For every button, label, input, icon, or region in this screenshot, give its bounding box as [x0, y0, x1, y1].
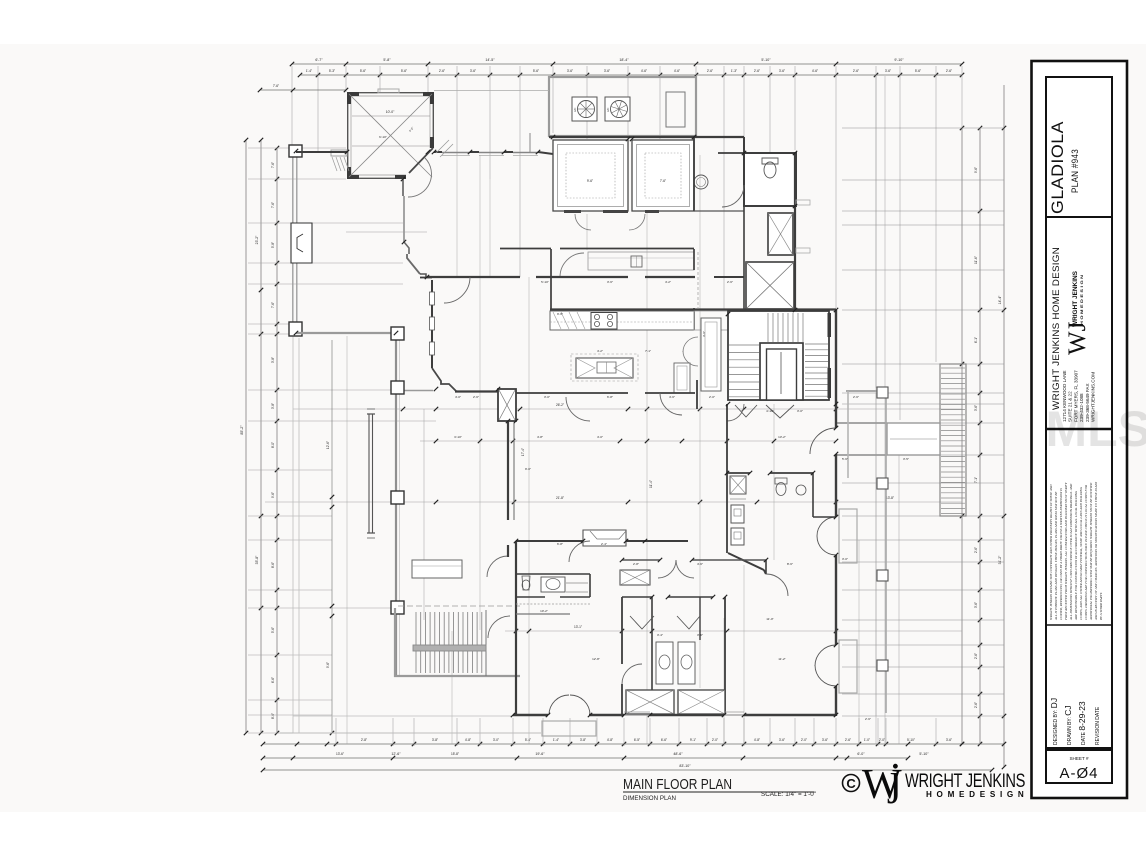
svg-text:3'-6": 3'-6"	[974, 405, 978, 411]
porch roof dashed line	[398, 605, 520, 607]
svg-text:8'-6": 8'-6"	[271, 562, 275, 568]
top dimension line row 1	[292, 63, 962, 65]
bath2 vanity	[541, 577, 565, 592]
svg-text:1'-4": 1'-4"	[553, 738, 559, 742]
svg-text:A-Ø4: A-Ø4	[1059, 765, 1098, 782]
svg-text:3'-4": 3'-4"	[657, 633, 663, 637]
entry angled wall	[409, 148, 433, 173]
island sink	[597, 362, 616, 373]
svg-text:2'-0": 2'-0"	[801, 738, 807, 742]
interior crossing dimension line C	[505, 630, 962, 632]
svg-text:4'-0": 4'-0"	[597, 435, 603, 439]
svg-text:5'-4": 5'-4"	[525, 738, 531, 742]
svg-text:ADDITIONAL ENGINEERING THAT MA: ADDITIONAL ENGINEERING THAT MAY BE REQUI…	[1089, 482, 1093, 621]
svg-text:7'-6": 7'-6"	[271, 202, 275, 208]
svg-text:H O M E D E S I G N: H O M E D E S I G N	[1080, 274, 1084, 325]
right stair treads	[941, 367, 965, 369]
bath2 low wall	[516, 613, 570, 615]
svg-text:6'-10": 6'-10"	[379, 135, 387, 139]
bedroom2 east door arc	[622, 664, 642, 684]
svg-text:4'-6": 4'-6"	[674, 69, 680, 73]
mudroom walls	[726, 404, 728, 553]
long vertical ext at tower edge	[346, 336, 348, 744]
svg-text:3'-0": 3'-0"	[544, 395, 550, 399]
svg-text:AND IN RECEIPT OF ANY CHANGES.: AND IN RECEIPT OF ANY CHANGES. ADDITIONS…	[1094, 481, 1098, 621]
bridge to house	[836, 422, 887, 424]
svg-text:5'-6": 5'-6"	[401, 69, 407, 73]
svg-text:3'-0": 3'-0"	[842, 557, 848, 561]
svg-text:4'-8": 4'-8"	[607, 738, 613, 742]
svg-text:48'-6": 48'-6"	[673, 752, 683, 756]
svg-text:12'-6": 12'-6"	[391, 752, 401, 756]
bath3 vanity west	[656, 642, 673, 684]
svg-text:9'-6": 9'-6"	[587, 179, 593, 183]
bath2 shower hatch	[566, 582, 588, 584]
tall cabinet shaft	[701, 318, 721, 391]
entry tower inner dim lines	[352, 115, 430, 117]
storage closet east	[632, 140, 694, 211]
svg-text:3'-8": 3'-8"	[271, 403, 275, 409]
pool equipment pad	[666, 92, 685, 127]
svg-text:9'-10": 9'-10"	[894, 58, 904, 62]
svg-text:12'-8": 12'-8"	[592, 657, 600, 661]
svg-text:7'-1": 7'-1"	[645, 349, 651, 353]
svg-text:ALL DIMENSIONS WHICH IF USED P: ALL DIMENSIONS WHICH IF USED PRECEDENCE …	[1069, 483, 1073, 621]
roof line to pad	[434, 90, 549, 92]
lanai edge horizontal	[296, 332, 400, 334]
closet door thresholds	[564, 210, 581, 213]
stair treads upper run	[767, 313, 769, 342]
lanai columns	[391, 327, 404, 340]
stair treads east run	[805, 343, 828, 345]
hall south wall	[516, 392, 628, 394]
great room south wall west	[455, 390, 499, 392]
outdoor stair treads	[415, 612, 417, 673]
svg-text:2'-6": 2'-6"	[946, 69, 952, 73]
svg-text:13'-1": 13'-1"	[574, 625, 582, 629]
outdoor stair enclosure	[394, 608, 396, 677]
svg-text:1'-4": 1'-4"	[306, 69, 312, 73]
bar sink	[631, 256, 642, 267]
svg-text:2'-6": 2'-6"	[473, 395, 479, 399]
window seat	[583, 530, 626, 546]
porch interior dim line	[331, 340, 333, 733]
svg-text:C: C	[846, 776, 856, 791]
lanai edge vertical	[395, 333, 397, 676]
svg-text:A/C: A/C	[573, 108, 577, 112]
hall door arc bed2	[569, 541, 590, 562]
front wall east of tower	[434, 151, 442, 153]
wall east of closets	[694, 136, 744, 138]
outdoor stair landing	[413, 645, 486, 651]
svg-text:9'-6": 9'-6"	[326, 662, 330, 668]
svg-text:85'-2": 85'-2"	[240, 425, 244, 435]
svg-text:WJ: WJ	[1064, 321, 1091, 355]
tower side walk hatch	[332, 157, 337, 171]
svg-text:10'-2": 10'-2"	[540, 609, 548, 613]
toilet top-right	[762, 158, 778, 164]
svg-text:11'-0": 11'-0"	[766, 617, 773, 621]
svg-text:31'-2": 31'-2"	[998, 555, 1002, 564]
window stubs right upper	[796, 200, 810, 205]
stairwell landing walls	[760, 343, 803, 400]
svg-text:13'-6": 13'-6"	[336, 752, 344, 756]
svg-text:3'-8": 3'-8"	[271, 357, 275, 363]
svg-text:14'-5": 14'-5"	[485, 58, 495, 62]
svg-text:4'-6": 4'-6"	[812, 69, 818, 73]
svg-text:4'-6": 4'-6"	[697, 562, 703, 566]
french door right mid	[817, 517, 836, 536]
right exterior wall upper	[794, 153, 796, 310]
powder room fixtures	[776, 483, 786, 496]
porch wall left upper	[292, 151, 294, 324]
top extension lines	[291, 66, 293, 151]
title block outer border	[1032, 61, 1128, 798]
dining double door arcs	[683, 337, 698, 352]
hall walls by bath	[693, 137, 695, 211]
svg-text:2'-8": 2'-8"	[633, 562, 639, 566]
svg-text:WRIGHT JENKINS: WRIGHT JENKINS	[905, 771, 1025, 792]
ac unit 1	[572, 97, 597, 121]
title block inner border	[1046, 77, 1112, 748]
bedroom2 east wall	[621, 597, 623, 664]
kitchen counter	[550, 311, 694, 330]
bottom exterior wall	[513, 714, 548, 716]
bedroom2 west wall	[513, 423, 515, 520]
svg-text:5'-6": 5'-6"	[915, 69, 921, 73]
elevator shaft	[768, 213, 793, 255]
laundry shelves	[730, 476, 746, 494]
svg-text:DIMENSION PLAN: DIMENSION PLAN	[623, 795, 676, 802]
bedroom3 walls	[765, 560, 767, 574]
svg-text:MLS: MLS	[1045, 401, 1146, 457]
svg-text:6'-0": 6'-0"	[857, 752, 865, 756]
hall east wall	[696, 380, 698, 409]
stair lower-flight diagonal block	[746, 262, 794, 309]
svg-text:PLAN #943: PLAN #943	[1070, 149, 1081, 193]
svg-text:14'-4": 14'-4"	[998, 295, 1002, 304]
svg-text:9'-6": 9'-6"	[271, 492, 275, 498]
sheet number box	[1046, 750, 1112, 783]
svg-text:7'-6": 7'-6"	[273, 84, 279, 88]
entry tower cross brace	[349, 94, 432, 177]
stairwell outer walls	[728, 311, 829, 400]
svg-text:2'-6": 2'-6"	[853, 395, 859, 399]
svg-text:12'-6": 12'-6"	[326, 441, 330, 449]
svg-text:3'-6": 3'-6"	[885, 69, 891, 73]
bath vanity circle	[694, 175, 708, 189]
svg-text:ARE RESPONSIBLE FOR CONSTRUCTI: ARE RESPONSIBLE FOR CONSTRUCTION IN ACCO…	[1074, 490, 1078, 621]
closet3 west	[626, 690, 674, 714]
svg-text:4'-6": 4'-6"	[669, 395, 675, 399]
svg-text:3'-6": 3'-6"	[974, 602, 978, 608]
svg-text:23'-2": 23'-2"	[255, 235, 259, 244]
bath door arc	[722, 185, 744, 207]
svg-text:6'-7": 6'-7"	[315, 58, 323, 62]
great room west wall	[431, 280, 433, 368]
bath2 toilet	[522, 576, 530, 590]
svg-text:5'-8": 5'-8"	[271, 242, 275, 248]
svg-text:13'-2": 13'-2"	[778, 435, 786, 439]
svg-text:2'-6": 2'-6"	[974, 653, 978, 659]
bar right wall	[693, 249, 695, 270]
svg-text:11'-4": 11'-4"	[649, 480, 653, 488]
door arc foyer	[444, 277, 470, 303]
front wall window bars	[442, 152, 470, 154]
svg-text:4'-6": 4'-6"	[641, 69, 647, 73]
svg-text:7'-6": 7'-6"	[271, 302, 275, 308]
interior vertical reference lines	[875, 76, 877, 744]
right stair landing	[887, 423, 940, 455]
stair treads west run	[729, 344, 759, 346]
suite double door arcs	[658, 560, 676, 578]
svg-text:REVISION DATE: REVISION DATE	[1095, 706, 1101, 745]
bath3 walls	[651, 597, 653, 690]
svg-text:WRIGHT JENKINS RETAINS THE COP: WRIGHT JENKINS RETAINS THE COPYRIGHT AND…	[1049, 484, 1053, 620]
svg-text:SHEET #: SHEET #	[1069, 756, 1089, 761]
svg-text:5'-3": 5'-3"	[329, 69, 335, 73]
svg-text:11'-6": 11'-6"	[974, 256, 978, 264]
porch slab edge left	[292, 148, 294, 733]
stoop right lower	[839, 640, 857, 693]
svg-text:2'-6": 2'-6"	[865, 717, 871, 721]
left dimension column 1	[245, 140, 247, 733]
wall below ac pad	[549, 136, 744, 138]
svg-text:4'-0": 4'-0"	[455, 395, 461, 399]
bottom extension lines	[335, 718, 337, 746]
top dimension line row 2	[300, 74, 962, 76]
bottom dimension rows	[280, 732, 541, 734]
svg-text:j: j	[887, 753, 902, 804]
french door bottom-centre	[549, 695, 569, 715]
upper hall door arcs	[575, 214, 591, 230]
wall between bath and elevator	[743, 206, 745, 309]
west wall window blocks	[430, 292, 435, 305]
svg-text:9'-6": 9'-6"	[974, 167, 978, 173]
bath2 walls	[516, 573, 590, 575]
svg-text:SCALE: 1/4" = 1'-0": SCALE: 1/4" = 1'-0"	[761, 791, 817, 798]
lanai bbq counter	[412, 560, 462, 578]
bar door arc	[560, 253, 584, 277]
diagonal wall mudroom	[728, 553, 764, 570]
porch door arc to study	[487, 556, 508, 577]
svg-text:83'-10": 83'-10"	[679, 764, 691, 768]
porch slab bottom edges	[293, 732, 541, 734]
svg-text:6'-8": 6'-8"	[607, 395, 613, 399]
butler counter	[694, 311, 728, 330]
svg-text:BY A THIRD PARTY.: BY A THIRD PARTY.	[1099, 592, 1103, 620]
svg-text:35'-8": 35'-8"	[255, 555, 259, 564]
closet3 east	[678, 690, 725, 714]
right extension lines	[842, 127, 1004, 129]
svg-text:6'-8": 6'-8"	[557, 542, 563, 546]
svg-text:GLADIOLA: GLADIOLA	[1048, 121, 1067, 214]
corner block kitchen	[498, 389, 516, 421]
entry door arc	[408, 158, 431, 197]
svg-text:A/C: A/C	[606, 108, 610, 112]
svg-text:6'-1": 6'-1"	[974, 337, 978, 343]
svg-text:5'-6": 5'-6"	[360, 69, 366, 73]
svg-text:6'-6": 6'-6"	[271, 677, 275, 683]
island overhang dashed	[571, 354, 638, 381]
svg-text:6'-5": 6'-5"	[634, 738, 640, 742]
interior crossing dimension line A	[293, 408, 962, 410]
bar pocket door dash	[697, 252, 699, 308]
stoop right upper	[839, 509, 857, 563]
side porch columns	[877, 387, 888, 398]
svg-text:5'-6": 5'-6"	[271, 627, 275, 633]
svg-text:5'-10": 5'-10"	[919, 752, 929, 756]
bar wall	[500, 248, 551, 250]
svg-text:1'-3": 1'-3"	[731, 69, 737, 73]
svg-text:3'-6": 3'-6"	[697, 633, 703, 637]
bath3 vanity east	[678, 642, 695, 684]
svg-text:2'-4": 2'-4"	[601, 542, 607, 546]
gallery west wall upper	[402, 178, 404, 196]
svg-text:2'-6": 2'-6"	[727, 280, 733, 284]
stoop bottom-centre	[542, 721, 596, 736]
svg-text:WRIGHT JENKINS: WRIGHT JENKINS	[1072, 271, 1079, 327]
porch column left mid	[289, 322, 302, 336]
svg-text:8'-6": 8'-6"	[271, 713, 275, 719]
svg-text:3'-6": 3'-6"	[604, 69, 610, 73]
svg-text:5'-6": 5'-6"	[842, 457, 848, 461]
lanai sliding door pocket	[368, 414, 370, 533]
svg-text:8'-0": 8'-0"	[271, 442, 275, 448]
svg-text:26'-2": 26'-2"	[556, 403, 564, 407]
svg-text:7'-6": 7'-6"	[271, 162, 275, 168]
washer dryer	[731, 505, 744, 523]
hall door arcs	[566, 397, 590, 421]
svg-text:15'-8": 15'-8"	[451, 752, 459, 756]
svg-text:3'-0": 3'-0"	[797, 409, 803, 413]
svg-text:4'-8": 4'-8"	[754, 738, 760, 742]
bath3 bifold doors	[630, 616, 654, 629]
svg-text:H O M E D E S I G N: H O M E D E S I G N	[926, 790, 1025, 799]
svg-text:7'-6": 7'-6"	[660, 179, 666, 183]
svg-text:3'-6": 3'-6"	[946, 738, 952, 742]
svg-text:3'-6": 3'-6"	[470, 69, 476, 73]
svg-text:9'-6": 9'-6"	[557, 312, 563, 316]
svg-text:17'-4": 17'-4"	[521, 448, 525, 456]
svg-text:2'-6": 2'-6"	[754, 69, 760, 73]
bath top-right walls	[744, 153, 796, 206]
right dimension columns	[961, 128, 963, 744]
left top dim segment	[260, 89, 346, 91]
svg-text:4'-2": 4'-2"	[665, 280, 671, 284]
ac pad slab	[549, 77, 696, 136]
right exterior wall lower	[835, 310, 837, 428]
entry tower corner blocks	[347, 92, 359, 96]
suite north wall	[622, 559, 660, 561]
porch slab corner line	[529, 133, 531, 152]
bar counter	[588, 252, 694, 270]
entry tower outer walls	[347, 92, 434, 94]
svg-text:5'-10": 5'-10"	[541, 280, 549, 284]
svg-text:5'-10": 5'-10"	[761, 58, 771, 62]
hall arc by stairs	[727, 404, 744, 421]
svg-text:2'-6": 2'-6"	[853, 69, 859, 73]
svg-text:3'-8": 3'-8"	[580, 738, 586, 742]
svg-text:3'-5": 3'-5"	[903, 457, 909, 461]
side porch edge	[846, 390, 886, 392]
copyright symbol	[843, 775, 860, 792]
svg-text:3'-6": 3'-6"	[607, 280, 613, 284]
dining buffet cabinet	[674, 363, 690, 393]
svg-text:3'-0": 3'-0"	[493, 738, 499, 742]
svg-text:9'-0": 9'-0"	[525, 467, 531, 471]
svg-text:1'-0": 1'-0"	[864, 738, 870, 742]
svg-text:2'-6": 2'-6"	[974, 702, 978, 708]
svg-text:19'-6": 19'-6"	[535, 752, 545, 756]
left dimension column 2	[260, 140, 262, 733]
bedroom2 north wall	[516, 540, 583, 542]
svg-text:13'-8": 13'-8"	[886, 496, 894, 500]
gallery west jog	[404, 242, 409, 254]
porch beam to house	[404, 390, 433, 392]
great room west bay	[432, 368, 457, 392]
svg-text:MAIN FLOOR PLAN: MAIN FLOOR PLAN	[623, 777, 732, 793]
svg-text:18'-4": 18'-4"	[619, 58, 629, 62]
porch bottom ext vertical	[451, 631, 453, 744]
mudroom east wall	[812, 473, 814, 517]
title block divider 3	[1046, 624, 1112, 626]
porch column left top	[289, 145, 302, 157]
svg-text:CODES. DRAWINGS ARE FOR CONSTR: CODES. DRAWINGS ARE FOR CONSTRUCTION ONL…	[1084, 485, 1088, 620]
svg-text:3'-10": 3'-10"	[454, 435, 462, 439]
svg-text:10'-0": 10'-0"	[386, 110, 395, 114]
right stair enclosure	[940, 364, 966, 516]
svg-text:8'-6": 8'-6"	[787, 562, 793, 566]
interior crossing dimension line D	[420, 440, 836, 442]
french door right lower	[815, 645, 836, 666]
svg-text:3'-6": 3'-6"	[702, 331, 706, 337]
svg-text:2'-6": 2'-6"	[974, 547, 978, 553]
scatter wall ticks	[514, 539, 518, 543]
svg-text:11'-2": 11'-2"	[778, 657, 785, 661]
gallery extra line	[346, 231, 427, 233]
bedroom3 door arc	[766, 574, 788, 596]
gallery west wall lower	[420, 274, 426, 278]
left extension lines	[248, 147, 346, 149]
svg-text:2'-0": 2'-0"	[879, 738, 885, 742]
fireplace	[291, 223, 312, 263]
stairwell window blocks	[828, 313, 832, 337]
stairwell top wall	[550, 308, 836, 310]
svg-text:2'-6": 2'-6"	[845, 738, 851, 742]
bottom wall windows	[624, 714, 650, 716]
svg-text:5'-8": 5'-8"	[383, 58, 391, 62]
front wall west of tower	[296, 151, 347, 153]
svg-text:4'-8": 4'-8"	[465, 738, 471, 742]
svg-text:7'-1": 7'-1"	[974, 477, 978, 483]
title block divider 2	[1046, 428, 1112, 430]
svg-text:2'-0": 2'-0"	[709, 395, 715, 399]
bar left wall	[550, 249, 552, 311]
svg-text:WRIGHT JENKINS HOME DESIGN: WRIGHT JENKINS HOME DESIGN	[1051, 247, 1062, 410]
svg-text:2'-6": 2'-6"	[439, 69, 445, 73]
title underline	[623, 791, 814, 793]
svg-text:4'-2": 4'-2"	[597, 349, 603, 353]
svg-text:4'-10": 4'-10"	[766, 409, 774, 413]
suite hall wall	[622, 596, 652, 598]
svg-text:6'-6": 6'-6"	[661, 738, 667, 742]
svg-text:3'-6": 3'-6"	[567, 69, 573, 73]
stair closet bifolds	[735, 405, 757, 417]
lower hall ext lines	[743, 565, 745, 744]
svg-text:4'-8": 4'-8"	[537, 435, 543, 439]
shower niche	[620, 570, 650, 585]
